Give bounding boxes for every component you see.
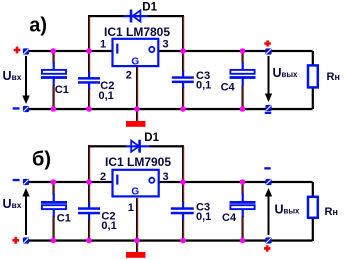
node junction dots bottom rail a [51, 106, 246, 112]
wire ground stem a (x=137) [136, 67, 137, 122]
IC1 pin I marker [116, 44, 118, 54]
svg-text:б): б) [32, 149, 51, 171]
terminal output + (circuit a) [265, 48, 271, 54]
capacitor C4 (circuit b, electrolytic flipped) [230, 182, 256, 241]
svg-text:3: 3 [163, 39, 169, 51]
IC1 pin O marker [149, 47, 154, 52]
resistor Rн (circuit b) [308, 182, 318, 241]
wire top rail a (input side) [29, 50, 113, 52]
ground (circuit a) [126, 121, 146, 127]
svg-text:Uвх: Uвх [3, 69, 22, 83]
svg-text:C1: C1 [57, 213, 71, 225]
wire diode rail b left segment [88, 145, 126, 147]
svg-text:Rн: Rн [325, 206, 338, 218]
label + input (b) [12, 237, 19, 244]
wire diode rail a left segment [88, 15, 125, 17]
svg-text:2: 2 [126, 70, 132, 82]
wire bottom rail a [29, 108, 313, 110]
svg-text:2: 2 [100, 171, 106, 183]
svg-text:Uвх: Uвх [3, 197, 22, 211]
diode D1 (circuit a) [124, 10, 148, 23]
label - input (a) [13, 107, 20, 109]
svg-text:C4: C4 [222, 212, 237, 224]
capacitor C1 (circuit a, electrolytic) [41, 51, 67, 109]
svg-text:D1: D1 [144, 132, 159, 144]
capacitor C2 (circuit b) [78, 182, 100, 241]
capacitor C2 (circuit a) [78, 51, 100, 109]
svg-text:G: G [131, 187, 139, 198]
wire riser b left (x=89) [88, 145, 89, 182]
svg-text:C1: C1 [55, 84, 69, 96]
svg-text:G: G [131, 57, 139, 68]
wire diode rail a right segment [148, 15, 185, 17]
wire output rail b [159, 181, 313, 183]
terminal input - (circuit b) [23, 179, 29, 185]
wire riser a right (x=183, diode rail to output rail) [182, 15, 183, 51]
wire riser a left (x=89, diode rail to top rail) [88, 15, 89, 51]
resistor Rн (circuit a) [308, 51, 318, 109]
wire diode rail b right segment [149, 145, 184, 147]
wire top rail b (input side) [29, 181, 113, 183]
input arrow b (up) [22, 188, 29, 235]
terminal input - (circuit a) [23, 106, 29, 112]
ground (circuit b) [126, 252, 146, 258]
capacitor C3 (circuit b) [171, 182, 194, 241]
capacitor C4 (circuit a, electrolytic) [230, 51, 256, 109]
capacitor C1 (circuit b, electrolytic flipped) [41, 182, 67, 241]
svg-text:0,1: 0,1 [196, 211, 211, 223]
terminal output - (circuit b) [265, 179, 271, 185]
node junction dots bottom rail b [51, 238, 246, 244]
output arrow b (up) [265, 188, 272, 235]
label - output (b) [264, 167, 270, 169]
node junction dots top rail a [51, 48, 246, 54]
wire riser b right (x=183) [182, 145, 183, 182]
terminal output - (circuit a) [265, 105, 271, 111]
label + output (a) [264, 40, 271, 46]
wire output rail a [159, 50, 313, 52]
svg-text:0,1: 0,1 [101, 220, 116, 232]
svg-text:Rн: Rн [327, 71, 340, 83]
svg-text:3: 3 [163, 171, 169, 183]
label - output (a) [265, 112, 271, 114]
label + output (b) [264, 245, 271, 251]
regulator IC1 box (circuit b) [113, 170, 159, 197]
input arrow a (down) [22, 56, 29, 104]
svg-text:1: 1 [100, 39, 106, 51]
wire bottom rail b [29, 239, 313, 241]
output arrow a (down) [265, 56, 272, 102]
svg-text:0,1: 0,1 [99, 90, 114, 102]
svg-text:a): a) [29, 15, 47, 37]
capacitor C3 (circuit a) [172, 51, 194, 109]
svg-text:D1: D1 [142, 2, 157, 14]
svg-text:IC1 LM7805: IC1 LM7805 [104, 25, 170, 39]
IC1 pin O marker (b) [149, 178, 154, 183]
IC1 pin I marker (b) [116, 175, 118, 185]
op-amp/regulator IC1 box (circuit a) [113, 39, 159, 66]
label - input (b) [13, 179, 20, 181]
svg-text:C4: C4 [221, 82, 236, 94]
terminal output + (circuit b) [265, 237, 271, 243]
terminal input + (circuit a) [23, 48, 29, 54]
diode D1 (circuit b) [126, 140, 150, 153]
label + input (a) [14, 47, 21, 54]
svg-text:0,1: 0,1 [196, 79, 211, 91]
node junction dots top rail b [51, 179, 246, 185]
terminal input + (circuit b) [23, 237, 29, 243]
svg-text:IC1 LM7905: IC1 LM7905 [105, 155, 171, 169]
svg-text:1: 1 [128, 202, 134, 214]
wire ground stem b (x=137) [136, 198, 137, 253]
